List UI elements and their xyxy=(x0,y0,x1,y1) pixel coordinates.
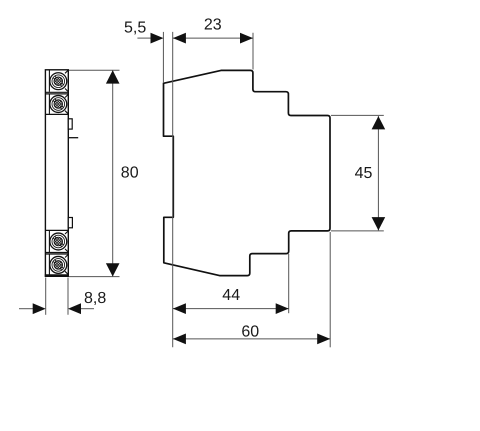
dim 44 line xyxy=(173,308,289,310)
dim 23 right arrow xyxy=(240,33,253,44)
corner ticks box3 xyxy=(65,231,68,252)
svg-text:5,5: 5,5 xyxy=(124,20,146,37)
svg-text:44: 44 xyxy=(222,287,240,304)
top terminal block divider lines xyxy=(45,92,68,114)
side T mark xyxy=(68,137,78,139)
side tab upper xyxy=(68,119,72,129)
dim 60 line xyxy=(173,338,330,340)
dim 60 extension right xyxy=(329,232,331,347)
dim 44 extension right xyxy=(288,254,290,313)
dim 8,8 right arrow xyxy=(68,303,81,314)
dim 5,5 arrow xyxy=(151,33,164,44)
inner left line box1 xyxy=(48,71,50,92)
dim 80 arrow up xyxy=(106,70,120,83)
dim 8,8 left tail xyxy=(19,308,35,310)
dim 60 right arrow xyxy=(317,334,330,345)
svg-text:8,8: 8,8 xyxy=(84,290,106,307)
svg-text:80: 80 xyxy=(121,164,139,181)
dim 8,8 extension right xyxy=(67,278,69,315)
dim 5,5 tail xyxy=(137,37,151,39)
dim 23 line xyxy=(173,37,253,39)
dim 80 extension bottom xyxy=(69,276,120,278)
dim 8,8 left arrow xyxy=(33,303,46,314)
dim 45 extension top xyxy=(331,114,384,116)
dim 44 right arrow xyxy=(276,303,289,314)
dim 44 left arrow xyxy=(173,303,186,314)
terminal screw 4 xyxy=(50,256,67,273)
front view outer body xyxy=(45,70,68,276)
terminal screw 2 xyxy=(50,96,67,113)
svg-text:60: 60 xyxy=(241,323,259,340)
dim 5,5 extension left xyxy=(162,32,164,83)
dim 8,8 extension left xyxy=(45,278,47,315)
corner ticks box2 xyxy=(65,95,68,114)
svg-text:45: 45 xyxy=(355,165,373,182)
bottom block thick bottom edge xyxy=(45,274,69,276)
corner ticks box4 xyxy=(65,255,68,275)
dim 8,8 right tail xyxy=(81,308,94,310)
dim extension long at x=172.5 xyxy=(172,32,174,347)
dim 60 left arrow xyxy=(173,334,186,345)
dim 80 extension top xyxy=(69,69,120,71)
dim 45 arrow up xyxy=(372,116,386,129)
dim 23 left arrow xyxy=(173,33,186,44)
dim 45 arrow down xyxy=(372,217,386,230)
terminal screw 3 xyxy=(50,233,67,250)
bottom terminal block divider lines xyxy=(45,230,68,254)
dim 23 extension right xyxy=(252,33,254,70)
svg-text:23: 23 xyxy=(204,16,222,33)
inner left line box4 xyxy=(48,255,50,275)
side tab lower xyxy=(68,218,72,228)
corner ticks box1 xyxy=(65,70,68,91)
inner left line box3 xyxy=(48,231,50,252)
terminal screw 1 xyxy=(50,73,67,90)
dim 45 extension bottom xyxy=(331,230,384,232)
dim 80 arrow down xyxy=(106,263,120,276)
dim 45 line xyxy=(377,116,379,230)
side view profile outline xyxy=(164,70,331,275)
dim 80 line xyxy=(112,70,114,276)
inner left line box2 xyxy=(48,94,50,114)
